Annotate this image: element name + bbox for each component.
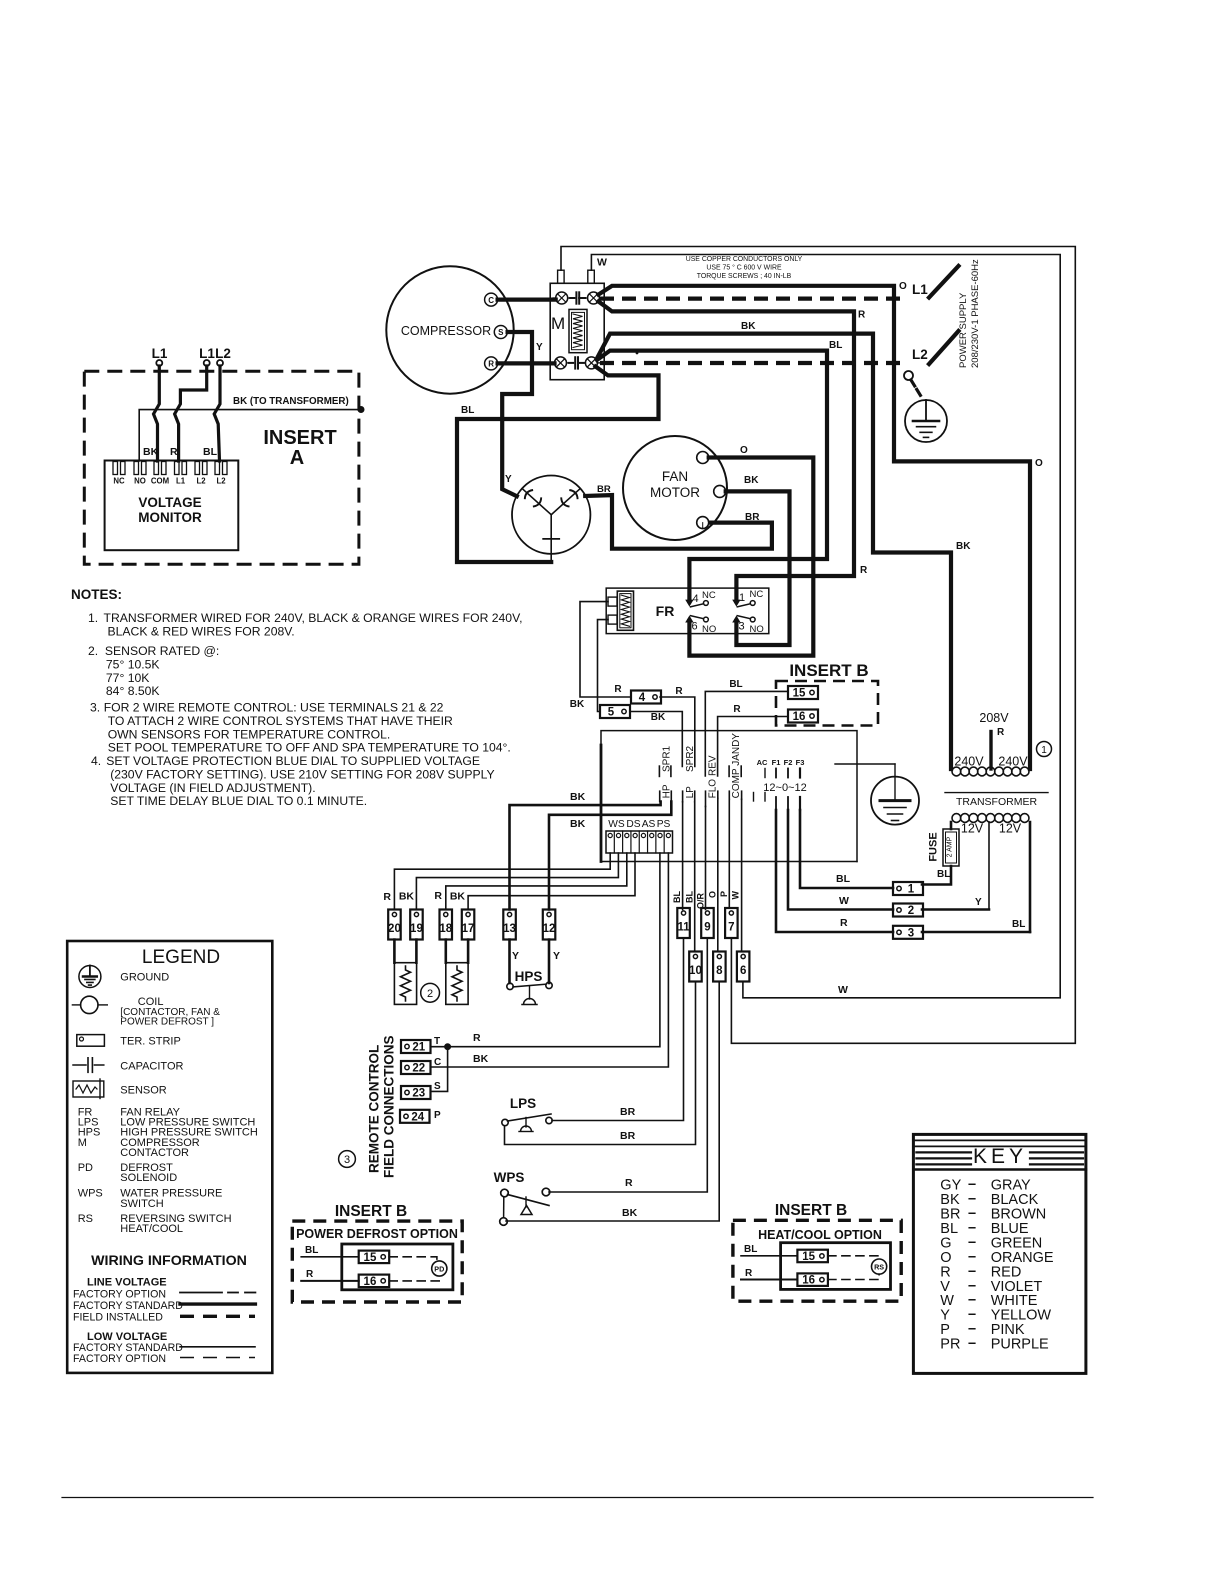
svg-text:BK: BK <box>651 712 666 723</box>
svg-text:LPS: LPS <box>510 1096 536 1111</box>
wire P contactor coil to terminal 7 <box>561 247 1075 1044</box>
footer rule <box>62 1497 1093 1499</box>
wire compressor C to contactor <box>498 298 556 302</box>
wire BL board F3 to terminal 1 <box>800 810 893 888</box>
svg-text:BK: BK <box>622 1207 638 1219</box>
terminal strip WS DS AS PS labels <box>608 819 670 830</box>
svg-text:TRANSFORMER WIRED FOR 240V, BL: TRANSFORMER WIRED FOR 240V, BLACK & ORAN… <box>104 611 523 625</box>
label O at corner <box>1035 458 1043 469</box>
wire W contactor coil to terminal 6 <box>591 255 1060 998</box>
svg-text:BR: BR <box>597 484 611 495</box>
svg-text:L1: L1 <box>912 282 928 297</box>
svg-text:12V: 12V <box>961 822 984 836</box>
svg-text:O: O <box>740 445 748 456</box>
wire W board F2 to terminal 2 <box>788 810 893 910</box>
label BL <box>937 869 950 880</box>
legend GROUND <box>120 972 169 984</box>
svg-text:BL: BL <box>685 891 695 903</box>
legend ter strip symbol <box>77 1035 105 1047</box>
label BR <box>620 1130 636 1142</box>
svg-text:R: R <box>383 891 391 903</box>
svg-text:12V: 12V <box>999 822 1022 836</box>
terminal 15 (RS) <box>797 1250 828 1263</box>
svg-text:Y: Y <box>505 474 512 485</box>
label BL <box>461 405 474 416</box>
arrow into FR contact 1 <box>732 600 740 607</box>
svg-text:USE 75 ° C 600 V WIRE: USE 75 ° C 600 V WIRE <box>706 264 782 272</box>
svg-text:FUSE: FUSE <box>928 832 940 861</box>
node L1 (left) <box>152 346 168 366</box>
terminal 12 <box>543 910 556 940</box>
svg-text:NC: NC <box>113 477 125 486</box>
label BR <box>597 484 611 495</box>
label R right of 4 <box>675 686 683 697</box>
svg-text:T: T <box>434 1036 440 1047</box>
key box <box>913 1134 1086 1373</box>
wire FR coil to terminal 4 <box>580 602 631 697</box>
svg-text:FAN: FAN <box>662 469 688 484</box>
svg-text:R: R <box>997 727 1005 738</box>
voltage monitor label <box>138 495 202 525</box>
svg-text:P: P <box>434 1110 441 1121</box>
svg-text:NO: NO <box>134 477 146 486</box>
svg-text:BL: BL <box>203 446 218 458</box>
dashed link 16 to RS <box>828 1274 879 1279</box>
high pressure switch HPS <box>507 969 552 1005</box>
label HEAT/COOL OPTION <box>758 1228 882 1242</box>
transformer 208V tap <box>979 711 1009 769</box>
svg-text:CONTACTOR: CONTACTOR <box>120 1147 189 1159</box>
wire R terminal 4 to board SPR2 <box>660 697 695 767</box>
svg-text:TORQUE SCREWS ; 40 IN-LB: TORQUE SCREWS ; 40 IN-LB <box>697 273 792 280</box>
label BK (TO TRANSFORMER) <box>233 396 349 407</box>
svg-text:F1: F1 <box>772 758 781 767</box>
terminal 13 <box>503 910 516 940</box>
board label REV <box>708 755 719 776</box>
label W (coil wire) <box>597 257 607 269</box>
svg-text:INSERT B: INSERT B <box>789 661 868 680</box>
label INSERT A <box>263 427 336 469</box>
svg-text:GROUND: GROUND <box>120 972 169 984</box>
svg-text:22: 22 <box>412 1063 425 1075</box>
svg-text:BK: BK <box>143 446 159 458</box>
svg-text:FACTORY STANDARD: FACTORY STANDARD <box>73 1300 183 1312</box>
svg-text:CAPACITOR: CAPACITOR <box>120 1060 183 1072</box>
contactor M label <box>551 314 565 333</box>
transformer separator and label <box>945 793 1048 808</box>
dashed field wire L2 <box>600 361 907 365</box>
label BK <box>741 321 756 332</box>
wire 21 stub <box>431 1046 450 1048</box>
svg-text:WPS: WPS <box>494 1170 525 1185</box>
svg-text:BL: BL <box>829 340 842 351</box>
svg-text:F2: F2 <box>784 758 793 767</box>
svg-text:7: 7 <box>728 922 734 934</box>
terminal 20 <box>388 910 401 940</box>
svg-text:1.: 1. <box>88 611 98 625</box>
wire BK (TO TRANSFORMER) with junction dot <box>139 407 364 462</box>
terminal 24 <box>400 1110 430 1124</box>
svg-text:BK: BK <box>744 475 759 486</box>
svg-text:10: 10 <box>689 965 702 977</box>
strip wires to terminals 20 19 18 17 <box>394 853 635 910</box>
svg-text:S: S <box>498 328 504 337</box>
arrow into FR contact 6 <box>685 616 693 623</box>
svg-text:KEY: KEY <box>973 1145 1027 1168</box>
svg-text:PD: PD <box>78 1162 93 1174</box>
svg-text:Y: Y <box>512 950 519 962</box>
svg-text:R: R <box>488 360 494 369</box>
svg-text:TRANSFORMER: TRANSFORMER <box>956 796 1038 808</box>
contactor M box <box>550 283 604 379</box>
svg-text:W: W <box>838 984 848 996</box>
compressor terminal C <box>485 293 498 306</box>
board pin dashes under 12~0~12 <box>754 793 801 811</box>
svg-text:PS: PS <box>657 819 671 830</box>
terminal 19 <box>410 910 423 940</box>
contactor M bottom contacts with capacitor <box>552 357 600 369</box>
label BK <box>473 1053 489 1065</box>
svg-text:COM: COM <box>151 477 169 486</box>
wire BL into 15 <box>741 1244 797 1256</box>
legend factory option line <box>73 1288 255 1300</box>
svg-text:VOLTAGE (IN FIELD ADJUSTMENT).: VOLTAGE (IN FIELD ADJUSTMENT). <box>110 781 315 795</box>
svg-text:BK: BK <box>570 699 585 710</box>
svg-text:R: R <box>860 565 868 576</box>
board label FLO with ticks <box>706 779 719 807</box>
terminal 2 <box>893 904 923 918</box>
svg-text:240V: 240V <box>954 755 984 769</box>
label BK <box>744 475 759 486</box>
label BL <box>829 340 842 351</box>
svg-text:FOR 2 WIRE REMOTE CONTROL: USE: FOR 2 WIRE REMOTE CONTROL: USE TERMINALS… <box>104 701 444 715</box>
svg-text:SOLENOID: SOLENOID <box>120 1172 177 1184</box>
svg-text:BL: BL <box>305 1245 318 1256</box>
wire R from L1(2) to VM terminal L1 <box>175 366 207 461</box>
svg-text:2 AMP: 2 AMP <box>947 836 954 857</box>
terminal 10 <box>689 952 702 982</box>
label BK <box>143 446 159 458</box>
label FR <box>656 603 675 619</box>
svg-text:BR: BR <box>745 512 760 523</box>
circled note 2 <box>421 983 440 1002</box>
label BK below 5 <box>651 712 666 723</box>
svg-text:3: 3 <box>738 621 744 633</box>
svg-text:R: R <box>858 310 866 321</box>
board label 12~0~12 <box>763 782 806 794</box>
wire BL into 15 <box>301 1245 359 1257</box>
air sensor S2 <box>446 940 468 1005</box>
junction dot on wire R <box>445 1044 451 1050</box>
svg-text:Y: Y <box>553 950 560 962</box>
svg-text:2: 2 <box>908 905 914 917</box>
dashed link 15 to RS <box>828 1256 879 1259</box>
wire BL from contactor to run capacitor <box>457 367 659 563</box>
svg-text:NO: NO <box>750 624 764 635</box>
legend box <box>67 941 272 1373</box>
wire BR terminal 11 to LPS <box>552 938 684 1121</box>
svg-text:P: P <box>719 891 729 897</box>
low pressure switch LPS <box>502 1096 552 1132</box>
svg-text:BR: BR <box>620 1130 636 1142</box>
label O <box>740 445 748 456</box>
svg-text:WS: WS <box>608 819 625 830</box>
svg-text:Y: Y <box>536 342 543 353</box>
supply ground symbol <box>905 400 947 442</box>
notes text block <box>71 587 523 808</box>
svg-text:USE COPPER CONDUCTORS ONLY: USE COPPER CONDUCTORS ONLY <box>686 256 803 263</box>
wire BK terminal 5 to board SPR2 <box>630 712 682 767</box>
run capacitor RC1 circle <box>512 476 590 554</box>
fan motor terminal BR <box>697 517 709 529</box>
svg-text:R: R <box>840 917 848 929</box>
circled note 3 <box>339 1151 356 1168</box>
wire BK fan motor to FR contact 3 <box>726 491 790 645</box>
svg-text:6: 6 <box>740 965 746 977</box>
FR contact 6 NO <box>691 616 717 635</box>
svg-text:23: 23 <box>412 1088 425 1100</box>
svg-text:3: 3 <box>344 1154 350 1166</box>
fan motor terminal BK <box>714 485 726 497</box>
svg-text:SET POOL TEMPERATURE TO OFF AN: SET POOL TEMPERATURE TO OFF AND SPA TEMP… <box>108 741 511 755</box>
legend wiring information title <box>91 1253 247 1269</box>
terminal 22 <box>401 1061 431 1075</box>
label O at L1 <box>899 281 907 292</box>
svg-text:M: M <box>551 314 565 333</box>
label R <box>858 310 866 321</box>
svg-text:77° 10K: 77° 10K <box>106 671 150 685</box>
svg-text:R: R <box>745 1268 753 1279</box>
label R at FR contact 1 feed <box>860 565 868 576</box>
fuse F1 2 AMP <box>928 829 960 866</box>
legend COIL text <box>120 996 220 1028</box>
terminal 21 <box>401 1040 431 1054</box>
board label COMP JANDY with ticks <box>729 733 742 800</box>
svg-text:F3: F3 <box>796 758 805 767</box>
label BK <box>622 1207 638 1219</box>
wire BL from contactor to FR contact 4 <box>597 351 827 601</box>
board ground wire <box>835 764 895 801</box>
svg-text:REV: REV <box>708 755 719 776</box>
label R <box>473 1032 481 1044</box>
svg-text:BLACK & RED WIRES FOR 208V.: BLACK & RED WIRES FOR 208V. <box>108 624 295 638</box>
fan motor terminal O <box>697 452 709 464</box>
svg-text:16: 16 <box>364 1276 377 1288</box>
svg-text:VOLTAGE: VOLTAGE <box>138 495 201 510</box>
legend lv factory option <box>73 1353 255 1365</box>
svg-text:2: 2 <box>427 988 433 1000</box>
key color entries <box>940 1177 1054 1353</box>
svg-text:W: W <box>839 895 849 907</box>
svg-text:240V: 240V <box>998 755 1028 769</box>
label L1 and switch blade <box>912 266 959 298</box>
legend coil symbol <box>72 996 107 1013</box>
svg-text:INSERT: INSERT <box>263 427 336 449</box>
svg-text:FLO: FLO <box>708 779 719 799</box>
svg-text:HEAT/COOL: HEAT/COOL <box>120 1223 183 1235</box>
board label HP with ticks <box>660 784 673 801</box>
water pressure switch WPS <box>494 1170 550 1225</box>
svg-text:11: 11 <box>677 922 690 934</box>
svg-text:O: O <box>708 891 718 898</box>
label R <box>170 446 178 458</box>
svg-text:RS: RS <box>78 1213 93 1225</box>
board label SPR2 with ticks <box>685 745 696 772</box>
legend TER. STRIP <box>120 1036 181 1048</box>
power supply rotated label <box>958 259 981 368</box>
svg-text:M: M <box>78 1137 87 1149</box>
svg-text:A: A <box>290 447 304 469</box>
svg-text:13: 13 <box>503 923 516 935</box>
compressor motor CM1 <box>386 266 513 393</box>
svg-text:AC: AC <box>757 758 768 767</box>
arrow into FR contact 4 <box>685 600 693 607</box>
wire BR from run capacitor to fan motor <box>585 495 772 549</box>
wire BL insert B 15 to board REV <box>705 691 788 776</box>
wire BK from L1 to VM terminal NO/COM <box>154 366 160 461</box>
terminal 18 <box>439 910 452 940</box>
svg-text:BL: BL <box>729 679 742 690</box>
svg-text:NC: NC <box>750 589 764 600</box>
svg-text:BL: BL <box>672 891 682 903</box>
label BR <box>620 1106 636 1118</box>
terminal 4 <box>631 691 661 705</box>
svg-text:17: 17 <box>462 923 475 935</box>
terminal 9 <box>701 908 714 938</box>
svg-text:PD: PD <box>434 1265 444 1274</box>
FR contact 1 NC <box>737 589 763 607</box>
wire O fan motor to FR contact 6 <box>689 458 813 656</box>
svg-text:9: 9 <box>704 922 710 934</box>
wire BR fan motor (bottom) <box>702 523 704 529</box>
svg-text:TER. STRIP: TER. STRIP <box>120 1036 181 1048</box>
board pins AC F1 F2 F3 <box>757 758 805 778</box>
terminal 15 (insert B middle) <box>788 686 818 700</box>
svg-text:L1: L1 <box>199 346 215 361</box>
wires Y from 13 and 12 to HPS <box>510 940 550 983</box>
svg-text:S: S <box>434 1081 441 1092</box>
voltage monitor terminal marks <box>113 462 227 475</box>
wire R board F1 to terminal 3 <box>776 810 893 932</box>
wire Y terminal 2 to center tap <box>922 897 989 910</box>
board ground symbol <box>871 777 919 825</box>
svg-text:L2: L2 <box>215 346 231 361</box>
label W near terminal 6 <box>838 984 848 996</box>
terminal 17 <box>462 910 475 940</box>
svg-text:SENSOR RATED @:: SENSOR RATED @: <box>105 644 219 658</box>
wire BK terminal 12 to HP right <box>549 802 671 910</box>
svg-text:Y: Y <box>975 897 982 908</box>
legend low voltage <box>87 1331 167 1343</box>
svg-text:16: 16 <box>793 711 806 723</box>
label Y <box>536 342 543 353</box>
water sensor S1 <box>394 940 416 1005</box>
svg-text:BK (TO TRANSFORMER): BK (TO TRANSFORMER) <box>233 396 349 407</box>
wire BK terminal 8 to WPS <box>506 982 719 1222</box>
svg-text:6: 6 <box>691 621 697 633</box>
compressor terminal R <box>485 357 498 370</box>
svg-text:C: C <box>434 1057 441 1068</box>
svg-text:BK: BK <box>741 321 756 332</box>
label BL <box>203 446 218 458</box>
svg-text:1: 1 <box>739 592 745 604</box>
board label LP with ticks <box>683 786 696 802</box>
svg-text:BL: BL <box>744 1244 757 1255</box>
svg-text:208/230V-1 PHASE-60Hz: 208/230V-1 PHASE-60Hz <box>970 259 981 368</box>
label W <box>839 895 849 907</box>
reversing switch coil RS <box>872 1259 887 1274</box>
column labels BL BL O/R O P W <box>672 891 741 910</box>
svg-text:R: R <box>625 1177 633 1189</box>
wire BR terminal 10 to LPS <box>505 982 696 1145</box>
defrost solenoid coil PD <box>432 1261 447 1276</box>
legend capacitor symbol <box>73 1058 104 1073</box>
power defrost inner box <box>342 1244 453 1290</box>
wire 23 stub to junction <box>431 1047 448 1092</box>
warning text use copper conductors <box>686 256 803 280</box>
svg-text:INSERT B: INSERT B <box>335 1203 407 1220</box>
svg-text:75° 10.5K: 75° 10.5K <box>106 657 160 671</box>
legend line voltage <box>87 1277 167 1289</box>
board label SPR1 with ticks <box>659 745 672 776</box>
wire BL terminal 3 to secondary <box>922 919 1030 932</box>
label R left of 4 <box>614 684 622 695</box>
label R <box>733 704 741 715</box>
label POWER DEFROST OPTION <box>296 1227 458 1241</box>
terminal 8 <box>713 952 726 982</box>
legend abbreviations <box>78 1106 258 1235</box>
legend SENSOR <box>120 1085 167 1097</box>
svg-text:SENSOR: SENSOR <box>120 1085 167 1097</box>
svg-text:FIELD CONNECTIONS: FIELD CONNECTIONS <box>382 1035 397 1178</box>
svg-text:HEAT/COOL OPTION: HEAT/COOL OPTION <box>758 1228 882 1242</box>
compressor label <box>401 324 491 338</box>
svg-text:16: 16 <box>802 1275 815 1287</box>
svg-text:POWER DEFROST OPTION: POWER DEFROST OPTION <box>296 1227 458 1241</box>
FR contact 3 NO <box>737 616 763 635</box>
svg-text:L2: L2 <box>196 477 206 486</box>
label BK at transformer <box>956 541 971 552</box>
svg-text:24: 24 <box>411 1111 424 1123</box>
svg-text:15: 15 <box>802 1251 815 1263</box>
svg-text:DS: DS <box>626 819 640 830</box>
label BL <box>836 873 851 885</box>
label T <box>434 1036 440 1047</box>
svg-text:SPR2: SPR2 <box>685 745 696 772</box>
legend factory standard line <box>73 1300 255 1312</box>
svg-text:LEGEND: LEGEND <box>142 947 220 968</box>
svg-text:BK: BK <box>956 541 971 552</box>
terminal 3 <box>893 926 923 940</box>
insert B label (heat/cool) <box>775 1202 847 1219</box>
insert B dashed box (middle) <box>776 681 878 726</box>
svg-text:FIELD INSTALLED: FIELD INSTALLED <box>73 1312 163 1324</box>
svg-text:84° 8.50K: 84° 8.50K <box>106 684 160 698</box>
svg-text:LINE VOLTAGE: LINE VOLTAGE <box>87 1277 167 1289</box>
FR coil <box>608 591 634 630</box>
svg-text:L1: L1 <box>176 477 186 486</box>
heat/cool dashed box <box>733 1220 901 1301</box>
legend sensor symbol <box>73 1079 104 1099</box>
svg-text:COMP JANDY: COMP JANDY <box>731 733 742 799</box>
svg-text:MONITOR: MONITOR <box>138 510 202 525</box>
insert A dashed enclosure <box>84 371 359 564</box>
label R <box>625 1177 633 1189</box>
svg-text:BL: BL <box>937 869 950 880</box>
svg-text:18: 18 <box>439 923 452 935</box>
circled note 1 <box>1037 742 1052 757</box>
dashed field wire L1 <box>600 297 907 301</box>
